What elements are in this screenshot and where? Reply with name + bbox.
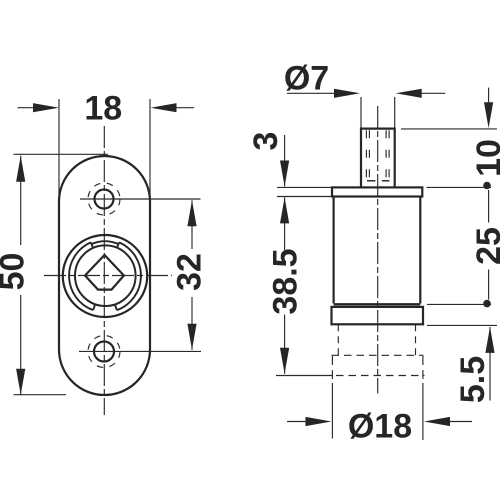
- svg-text:25: 25: [470, 227, 500, 265]
- svg-text:18: 18: [84, 89, 122, 127]
- svg-text:32: 32: [171, 253, 209, 291]
- svg-text:Ø18: Ø18: [348, 407, 412, 445]
- svg-text:10: 10: [470, 139, 500, 177]
- svg-text:50: 50: [0, 253, 32, 291]
- svg-text:Ø7: Ø7: [284, 59, 329, 97]
- svg-text:5.5: 5.5: [454, 356, 492, 403]
- svg-text:3: 3: [247, 132, 285, 151]
- svg-text:38.5: 38.5: [267, 248, 305, 314]
